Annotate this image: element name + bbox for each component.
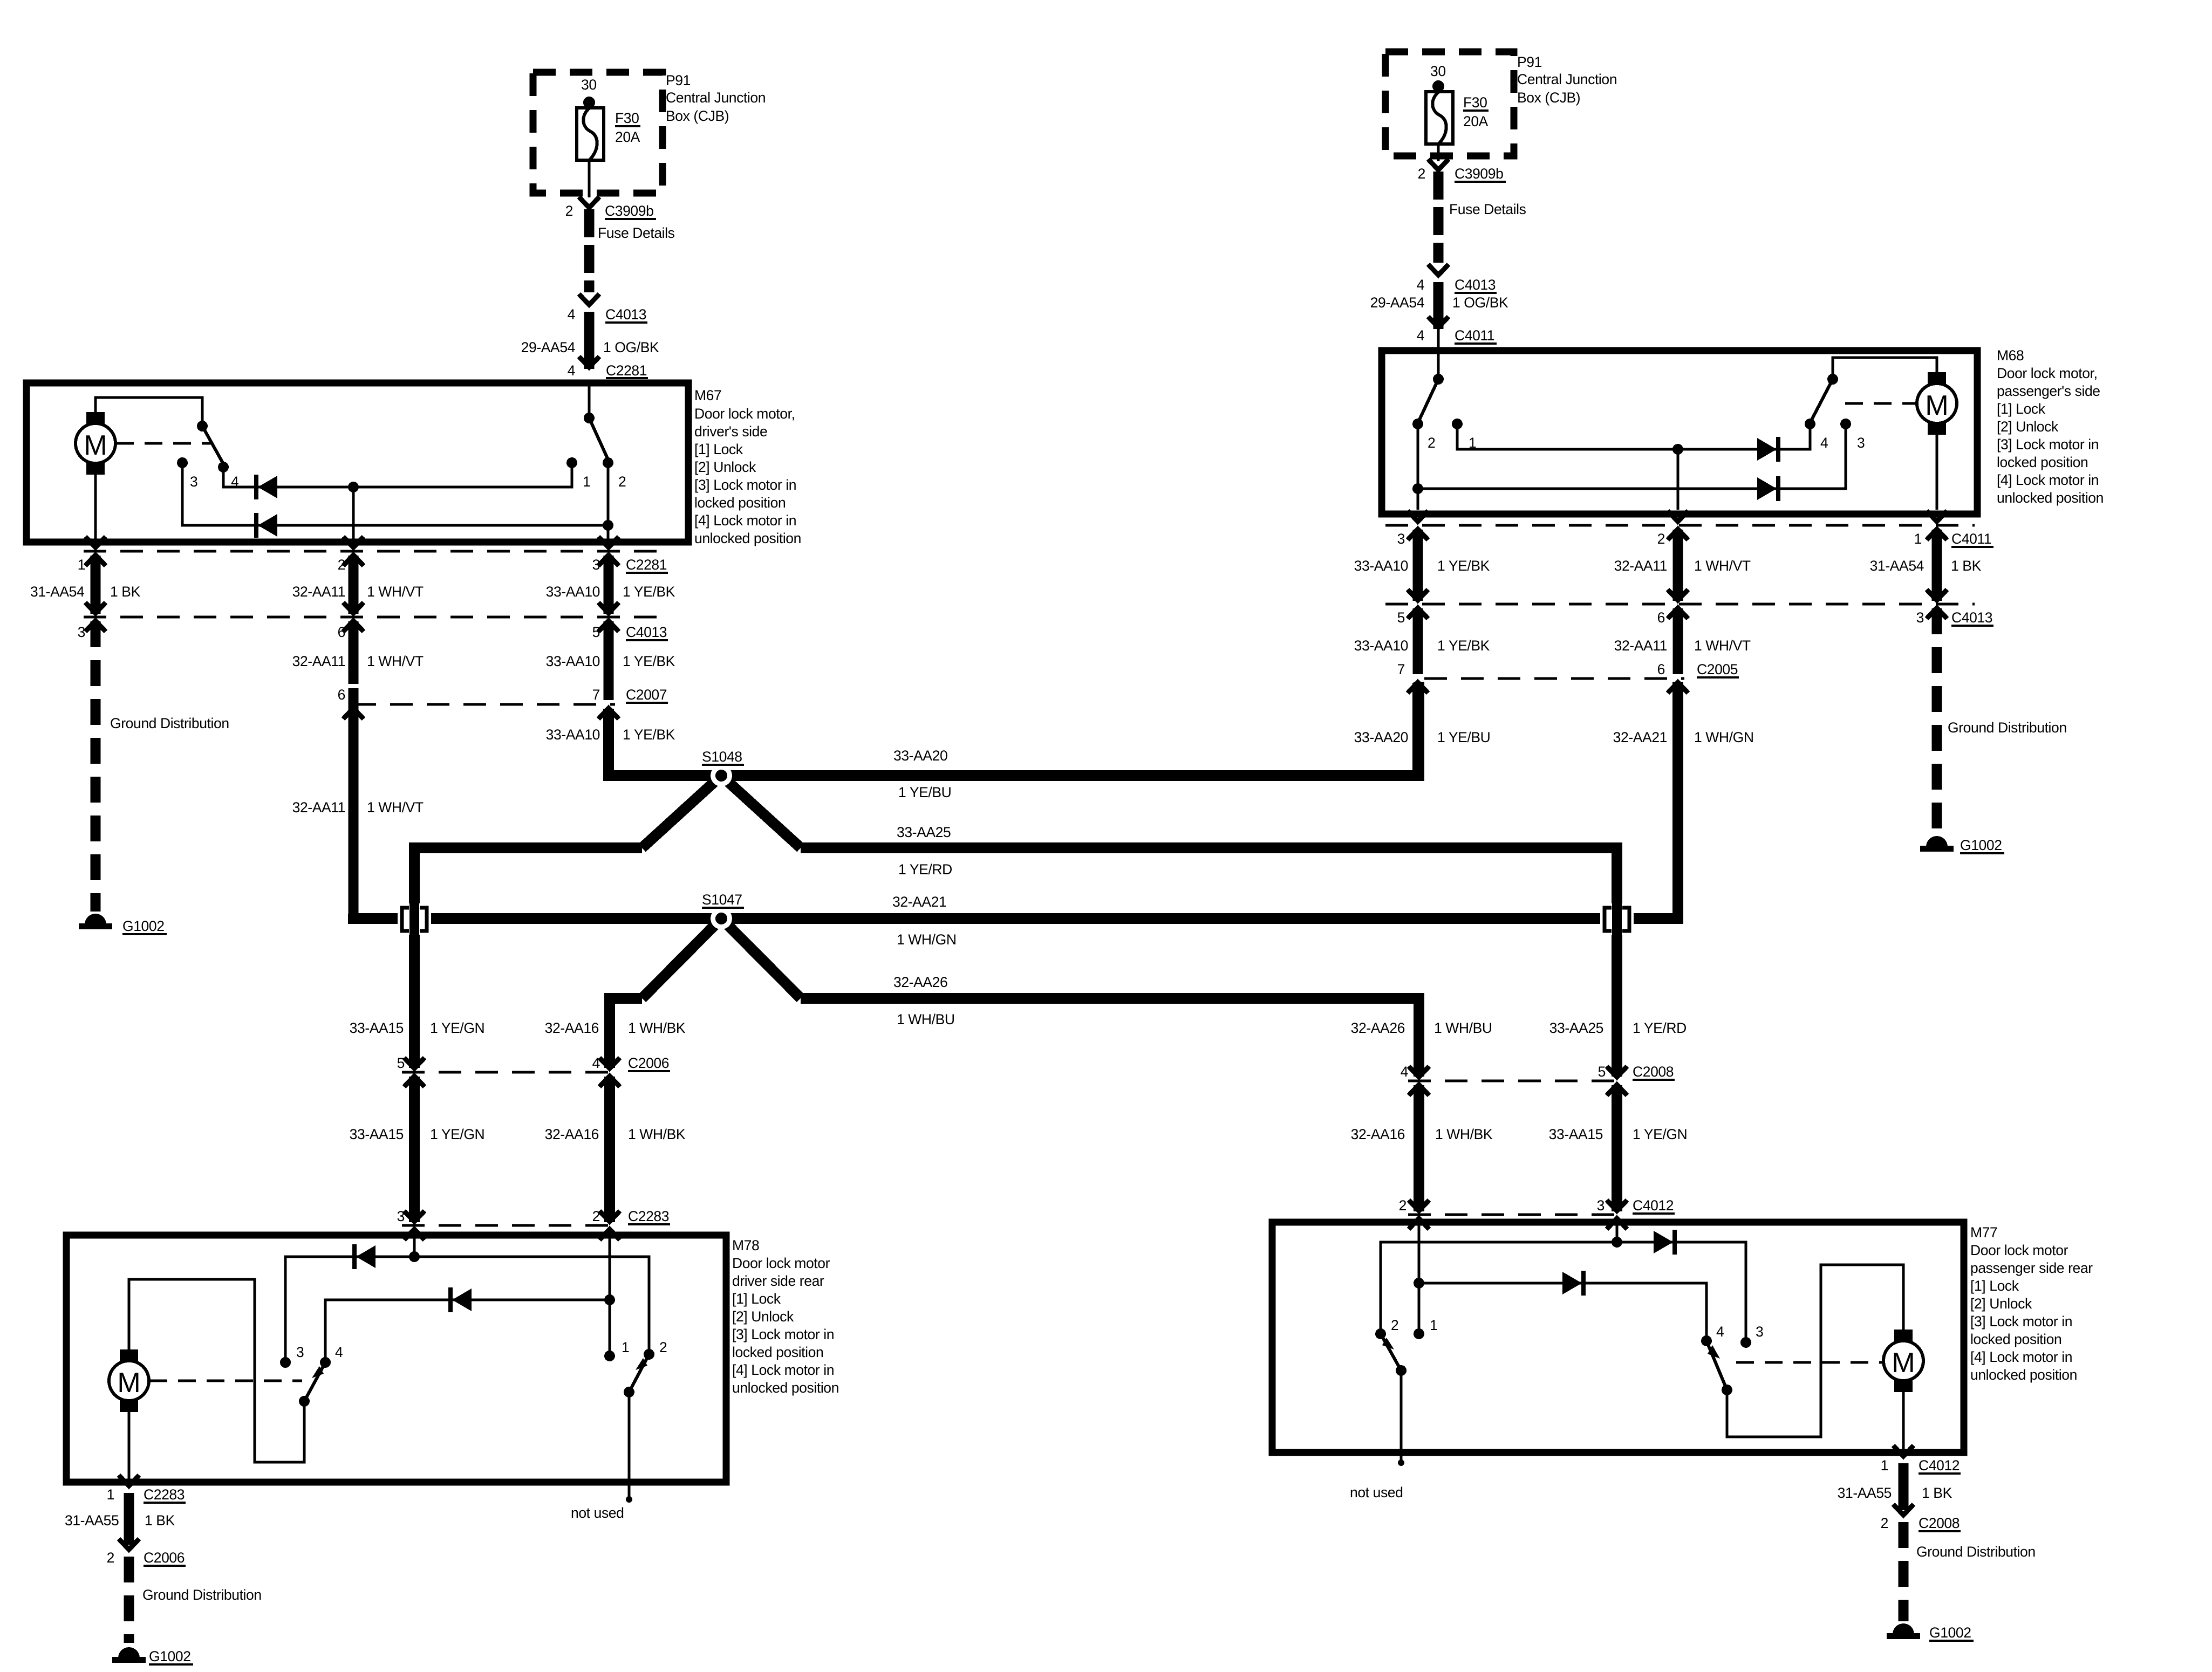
label 32-AA16 above C2006 bbox=[545, 1020, 599, 1036]
connector C4013 dashed row (left) bbox=[84, 616, 669, 619]
svg-text:passenger's side: passenger's side bbox=[1997, 383, 2100, 399]
connector C2281 dashed row bbox=[84, 550, 669, 553]
wire contact2 to pin3 (M67) bbox=[607, 463, 610, 539]
connector C2008 pin arrows bbox=[1409, 1066, 1627, 1095]
label contact 4 (M78) bbox=[335, 1344, 343, 1360]
motor M78 top terminal bbox=[120, 1349, 138, 1361]
contact 3 dot (M77) bbox=[1740, 1337, 1751, 1348]
label contact 3 (M67) bbox=[190, 474, 197, 490]
svg-text:1 YE/GN: 1 YE/GN bbox=[1633, 1126, 1687, 1142]
switch pivot dot (M67 motor switch) bbox=[197, 421, 208, 431]
svg-text:[3] Lock motor in: [3] Lock motor in bbox=[694, 477, 796, 493]
label M78 bbox=[732, 1237, 759, 1253]
label 1 YE/BK b (right) bbox=[1437, 638, 1490, 654]
svg-text:C4012: C4012 bbox=[1919, 1457, 1960, 1474]
wire unlock line 2 (M77) bbox=[1419, 1283, 1706, 1337]
label Ground Distribution (bottom left) bbox=[142, 1587, 262, 1603]
label Ground Distribution (right) bbox=[1948, 719, 2067, 736]
svg-text:32-AA11: 32-AA11 bbox=[1614, 558, 1667, 574]
wire ground distribution dashed (left G1002) bbox=[91, 621, 101, 912]
svg-text:1: 1 bbox=[622, 1339, 629, 1355]
svg-text:[3] Lock motor in: [3] Lock motor in bbox=[1970, 1313, 2072, 1330]
svg-text:M67: M67 bbox=[694, 387, 721, 403]
svg-text:30: 30 bbox=[1430, 63, 1446, 79]
svg-text:G1002: G1002 bbox=[149, 1648, 191, 1664]
svg-text:locked position: locked position bbox=[1970, 1331, 2061, 1347]
wire fuse top stub (left) bbox=[588, 102, 591, 109]
svg-text:C4013: C4013 bbox=[1455, 277, 1496, 293]
pin 30 label (left fuse) bbox=[581, 77, 597, 93]
svg-text:[4] Lock motor in: [4] Lock motor in bbox=[694, 512, 796, 529]
connector C4011 labels bbox=[1397, 531, 1993, 547]
svg-text:C2005: C2005 bbox=[1697, 661, 1738, 677]
label G1002 (bottom left) bbox=[149, 1648, 193, 1664]
wire 33-AA10 segment c to S1048 bbox=[609, 709, 721, 776]
label M67 bbox=[694, 387, 721, 403]
motor M77 top terminal bbox=[1894, 1330, 1913, 1341]
label 1 WH/BU (bus) bbox=[897, 1011, 955, 1027]
svg-text:1 YE/GN: 1 YE/GN bbox=[430, 1126, 484, 1142]
label M67 description bbox=[694, 406, 801, 546]
svg-text:4: 4 bbox=[568, 362, 575, 379]
label G1002 (right) bbox=[1960, 837, 2004, 853]
svg-text:1 BK: 1 BK bbox=[1922, 1485, 1952, 1501]
box M68 outline bbox=[1382, 351, 1977, 514]
svg-text:4: 4 bbox=[1417, 277, 1424, 293]
svg-text:5: 5 bbox=[397, 1055, 405, 1071]
svg-text:driver side rear: driver side rear bbox=[732, 1273, 824, 1289]
wire contact4 to lock line (M67) bbox=[223, 465, 572, 487]
label 32-AA11 b (right) bbox=[1614, 638, 1667, 654]
svg-text:33-AA10: 33-AA10 bbox=[546, 727, 600, 743]
svg-text:unlocked position: unlocked position bbox=[1970, 1367, 2077, 1383]
label 1 OG/BK (left) bbox=[603, 339, 659, 355]
connector C4011 dashed row bbox=[1385, 524, 1975, 527]
svg-text:4: 4 bbox=[592, 1055, 600, 1071]
connector C4012 dashed row bbox=[1408, 1214, 1627, 1216]
wire lock line 1 (M77) bbox=[1381, 1242, 1746, 1339]
wire contact1 to lock line (M68) bbox=[1457, 424, 1810, 449]
svg-text:Door lock motor,: Door lock motor, bbox=[694, 406, 795, 422]
svg-text:[4] Lock motor in: [4] Lock motor in bbox=[732, 1362, 834, 1378]
contact 4 dot (M68) bbox=[1805, 419, 1815, 429]
wire entry pin4 top (M67) bbox=[588, 384, 591, 416]
svg-text:Central Junction: Central Junction bbox=[1517, 71, 1617, 87]
svg-text:C4011: C4011 bbox=[1455, 327, 1494, 344]
svg-text:3: 3 bbox=[1756, 1324, 1763, 1340]
svg-text:1 WH/VT: 1 WH/VT bbox=[367, 653, 424, 669]
wire S1048 diagonal right bbox=[721, 776, 801, 848]
svg-text:7: 7 bbox=[592, 687, 600, 703]
switch blade (M67 motor switch) bbox=[202, 426, 223, 464]
wire pivot right not-used stub (M78) bbox=[626, 1392, 632, 1503]
wire 33-AA15 segment to C4012 bbox=[1612, 1085, 1622, 1211]
label 1 BK (left col) bbox=[110, 584, 141, 600]
wire 33-AA15 segment to C2283 bbox=[409, 1077, 420, 1222]
wire ground distribution dashed (right G1002) bbox=[1932, 608, 1942, 833]
wire 29-AA54 1 OG/BK (left) bbox=[584, 312, 595, 369]
wire pin3 entry (M77) bbox=[1616, 1225, 1619, 1242]
dashed link motor to blade (M67) bbox=[116, 442, 211, 445]
svg-text:unlocked position: unlocked position bbox=[732, 1380, 839, 1396]
svg-text:M: M bbox=[117, 1367, 140, 1399]
label 1 YE/BK c bbox=[623, 727, 675, 743]
junction dot pin2 (M77) bbox=[1414, 1278, 1424, 1289]
fuse F30 20A (left) bbox=[577, 108, 604, 160]
svg-text:32-AA21: 32-AA21 bbox=[892, 894, 946, 910]
svg-text:Door lock motor: Door lock motor bbox=[1970, 1242, 2068, 1258]
svg-text:33-AA10: 33-AA10 bbox=[1354, 558, 1408, 574]
junction dot pin3 (M68) bbox=[1412, 483, 1423, 494]
motor M67 bottom terminal bbox=[86, 463, 105, 475]
svg-text:1 YE/BK: 1 YE/BK bbox=[1437, 638, 1490, 654]
label 29-AA54 (left) bbox=[521, 339, 575, 355]
svg-text:M78: M78 bbox=[732, 1237, 759, 1253]
wire 33-AA25 1 YE/RD left run bbox=[414, 848, 642, 902]
dashed link blade to motor (M77) bbox=[1736, 1361, 1883, 1364]
label G1002 (left) bbox=[122, 918, 167, 934]
svg-text:20A: 20A bbox=[1463, 113, 1489, 129]
label 33-AA10 a bbox=[546, 584, 600, 600]
svg-text:20A: 20A bbox=[615, 129, 640, 145]
wire 32-AA16 jog from S1047 to C2006 bbox=[610, 998, 642, 1068]
wire 33-AA10 segment b (right) bbox=[1413, 608, 1423, 674]
connector C3909b (right) pin 2 bbox=[1418, 159, 1506, 182]
junction dot pin2 node (M67) bbox=[348, 482, 359, 492]
svg-text:2: 2 bbox=[1657, 531, 1665, 547]
connector C4012 pin arrows bbox=[1409, 1200, 1627, 1229]
motor M77 bottom terminal bbox=[1894, 1380, 1913, 1392]
svg-text:C4011: C4011 bbox=[1951, 531, 1991, 547]
wire pin2 entry (M77) bbox=[1418, 1225, 1421, 1330]
svg-text:2: 2 bbox=[1391, 1317, 1398, 1333]
svg-text:1 YE/RD: 1 YE/RD bbox=[898, 861, 952, 878]
svg-text:33-AA25: 33-AA25 bbox=[1549, 1020, 1603, 1036]
svg-text:Box (CJB): Box (CJB) bbox=[666, 108, 729, 124]
switch blade right (M68) bbox=[1811, 379, 1833, 421]
label 32-AA11 a (right) bbox=[1614, 558, 1667, 574]
svg-text:1: 1 bbox=[1430, 1317, 1437, 1333]
svg-text:31-AA54: 31-AA54 bbox=[30, 584, 84, 600]
label 32-AA11 c bbox=[292, 799, 345, 816]
svg-text:C4012: C4012 bbox=[1633, 1197, 1674, 1214]
diode D1 (M77) bbox=[1654, 1230, 1677, 1255]
label contact 1 (M77) bbox=[1430, 1317, 1437, 1333]
svg-text:3: 3 bbox=[1397, 531, 1405, 547]
svg-text:1 WH/GN: 1 WH/GN bbox=[1694, 729, 1754, 745]
wire lock line 1 (M78) bbox=[285, 1257, 649, 1362]
svg-text:F30: F30 bbox=[1463, 94, 1487, 111]
label contact 4 (M68) bbox=[1820, 435, 1828, 451]
svg-text:[3] Lock motor in: [3] Lock motor in bbox=[732, 1326, 834, 1342]
label 31-AA55 (left) bbox=[65, 1512, 119, 1529]
wire pivot loop to motor top (M78) bbox=[129, 1279, 304, 1462]
label not used (M77) bbox=[1350, 1484, 1403, 1500]
label 33-AA25 (bus) bbox=[897, 824, 951, 840]
label 1 WH/VT b bbox=[367, 653, 424, 669]
svg-text:G1002: G1002 bbox=[1929, 1625, 1971, 1641]
connector C2006 labels bbox=[397, 1055, 670, 1071]
svg-text:33-AA15: 33-AA15 bbox=[350, 1126, 404, 1142]
label 33-AA10 b (right) bbox=[1354, 638, 1408, 654]
svg-text:1 YE/RD: 1 YE/RD bbox=[1633, 1020, 1687, 1036]
svg-text:3: 3 bbox=[190, 474, 197, 490]
svg-text:G1002: G1002 bbox=[1960, 837, 2002, 853]
connector C2006 pin 2 below M78 bbox=[107, 1539, 186, 1566]
svg-text:32-AA26: 32-AA26 bbox=[1351, 1020, 1405, 1036]
label contact 3 (M78) bbox=[296, 1344, 304, 1360]
label 1 WH/BK below C2006 bbox=[628, 1126, 686, 1142]
connector C4013 dashed row (right) bbox=[1385, 603, 1975, 606]
label contact 4 (M67) bbox=[231, 474, 238, 490]
svg-text:Ground Distribution: Ground Distribution bbox=[1916, 1544, 2036, 1560]
label M68 description bbox=[1997, 365, 2104, 506]
svg-text:2: 2 bbox=[107, 1550, 114, 1566]
contact 4 dot (M67) bbox=[218, 462, 229, 472]
svg-text:1 YE/BK: 1 YE/BK bbox=[623, 653, 675, 669]
svg-text:3: 3 bbox=[78, 624, 85, 640]
svg-text:C2007: C2007 bbox=[626, 687, 667, 703]
svg-text:33-AA20: 33-AA20 bbox=[1354, 729, 1408, 745]
wire 32-AA26 1 WH/BU bus bbox=[801, 998, 1419, 1077]
label F30 (right) bbox=[1463, 94, 1489, 111]
ground symbol G1002 (left) bbox=[79, 914, 112, 929]
motor M67 top terminal bbox=[86, 412, 105, 424]
svg-text:1 WH/BU: 1 WH/BU bbox=[897, 1011, 955, 1027]
connector C2005 dashed row bbox=[1424, 677, 1684, 680]
wire pin1 motor drop (M68) bbox=[1936, 434, 1938, 510]
wire contact3 to unlock line (M68) bbox=[1418, 424, 1846, 489]
contact 4 dot (M77) bbox=[1701, 1335, 1712, 1346]
svg-text:1 YE/BK: 1 YE/BK bbox=[623, 727, 675, 743]
switch pivot right dot (M78) bbox=[624, 1387, 634, 1397]
svg-text:1 YE/BK: 1 YE/BK bbox=[1437, 558, 1490, 574]
label 32-AA16 below C2006 bbox=[545, 1126, 599, 1142]
svg-text:4: 4 bbox=[1401, 1064, 1408, 1080]
svg-text:2: 2 bbox=[1428, 435, 1435, 451]
label 1 YE/BU (bus) bbox=[898, 784, 951, 800]
svg-text:3: 3 bbox=[296, 1344, 304, 1360]
label 1 WH/BU above C2008 bbox=[1434, 1020, 1492, 1036]
wire 32-AA21 right corner up to C2005 bbox=[1631, 682, 1678, 919]
connector C2283 pin arrows bbox=[404, 1211, 620, 1240]
switch blade left (M68) bbox=[1419, 379, 1438, 421]
wire 33-AA20 drop from C2005 (right) bbox=[1412, 683, 1423, 776]
switch pivot right dot (M77) bbox=[1722, 1385, 1732, 1395]
connector C2006 dashed row bbox=[402, 1071, 620, 1074]
svg-text:[2] Unlock: [2] Unlock bbox=[732, 1308, 794, 1325]
svg-text:4: 4 bbox=[335, 1344, 343, 1360]
wire fuse details dashed (right) bbox=[1433, 172, 1444, 263]
wire 31-AA54 segment (right) bbox=[1932, 530, 1942, 601]
wire pin3 entry (M78) bbox=[413, 1238, 416, 1257]
svg-text:1 BK: 1 BK bbox=[145, 1512, 175, 1529]
svg-text:C3909b: C3909b bbox=[605, 203, 653, 219]
wire 32-AA11 segment b (right) bbox=[1673, 608, 1683, 674]
svg-text:Fuse Details: Fuse Details bbox=[598, 225, 675, 241]
wire 31-AA55 1 BK (left) bbox=[124, 1493, 134, 1545]
junction dot pin3 node (M67) bbox=[603, 520, 613, 531]
label 31-AA54 (right) bbox=[1870, 558, 1924, 574]
svg-text:[1] Lock: [1] Lock bbox=[694, 441, 743, 457]
svg-text:C4013: C4013 bbox=[605, 306, 646, 323]
svg-text:33-AA20: 33-AA20 bbox=[893, 748, 947, 764]
svg-text:3: 3 bbox=[1597, 1197, 1605, 1214]
svg-text:1 WH/VT: 1 WH/VT bbox=[367, 584, 424, 600]
svg-text:M: M bbox=[84, 430, 107, 461]
svg-text:1 BK: 1 BK bbox=[110, 584, 141, 600]
label 1 BK (bottom left) bbox=[145, 1512, 175, 1529]
svg-text:3: 3 bbox=[397, 1208, 405, 1224]
svg-text:1 WH/BU: 1 WH/BU bbox=[1434, 1020, 1492, 1036]
connector C4011 pin 4 bbox=[1417, 317, 1497, 344]
svg-text:[3] Lock motor in: [3] Lock motor in bbox=[1997, 436, 2099, 453]
wire ground distribution dashed (bottom left) bbox=[124, 1557, 134, 1643]
ground symbol G1002 (bottom right) bbox=[1887, 1623, 1920, 1639]
svg-text:unlocked position: unlocked position bbox=[1997, 490, 2104, 506]
contact 4 dot (M78) bbox=[320, 1357, 331, 1368]
label 32-AA11 a bbox=[292, 584, 345, 600]
wire motor bottom to pin1 (M78) bbox=[128, 1411, 131, 1480]
svg-text:M77: M77 bbox=[1970, 1224, 1997, 1241]
junction dot pin3 (M77) bbox=[1612, 1237, 1622, 1248]
label contact 1 (M68) bbox=[1469, 435, 1476, 451]
contact 1 dot (M68) bbox=[1452, 419, 1463, 429]
label 1 WH/GN (bus) bbox=[897, 931, 957, 948]
label 1 WH/BK above C2006 bbox=[628, 1020, 686, 1036]
label Central Junction (left) bbox=[666, 90, 766, 106]
wire pivot loop to motor top (M77) bbox=[1727, 1265, 1903, 1437]
wire 32-AA11 segment a bbox=[349, 556, 359, 614]
label 33-AA10 a (right) bbox=[1354, 558, 1408, 574]
wire pin2 drop (M68) bbox=[1677, 449, 1680, 510]
svg-text:32-AA16: 32-AA16 bbox=[545, 1020, 599, 1036]
pin 30 label (right fuse) bbox=[1430, 63, 1446, 79]
wire 32-AA21 1 WH/GN bus bbox=[429, 913, 1602, 924]
svg-text:1: 1 bbox=[583, 474, 590, 490]
wire 32-AA11 corner into S1047 line bbox=[353, 914, 399, 919]
svg-text:Fuse Details: Fuse Details bbox=[1449, 201, 1526, 217]
contact 1 dot (M67) bbox=[566, 457, 577, 468]
label P91 (left) bbox=[666, 72, 691, 88]
svg-text:1 YE/BU: 1 YE/BU bbox=[1437, 729, 1490, 745]
box M77 outline bbox=[1272, 1222, 1964, 1452]
connector C2008 dashed row bbox=[1408, 1080, 1627, 1082]
label 1 WH/VT c bbox=[367, 799, 424, 816]
junction dot pin2 node (M68) bbox=[1672, 444, 1683, 455]
diode D2 (M78) bbox=[448, 1287, 472, 1312]
label 31-AA54 bbox=[30, 584, 84, 600]
svg-text:C2008: C2008 bbox=[1919, 1515, 1960, 1531]
svg-text:32-AA26: 32-AA26 bbox=[893, 974, 947, 990]
svg-text:2: 2 bbox=[565, 203, 573, 219]
diode D2 (M77) bbox=[1562, 1271, 1586, 1296]
svg-text:33-AA15: 33-AA15 bbox=[350, 1020, 404, 1036]
label M68 bbox=[1997, 347, 2024, 364]
svg-text:S1047: S1047 bbox=[702, 892, 742, 908]
switch pivot left dot (M77) bbox=[1396, 1365, 1407, 1376]
fuse F30 20A (right) bbox=[1426, 92, 1453, 144]
label 1 BK (bottom right) bbox=[1922, 1485, 1952, 1501]
svg-text:3: 3 bbox=[1857, 435, 1865, 451]
connector C4013 pin arrows (right) bbox=[1408, 590, 1947, 619]
svg-text:C2008: C2008 bbox=[1633, 1064, 1674, 1080]
svg-text:1 WH/GN: 1 WH/GN bbox=[897, 931, 957, 948]
wire 31-AA55 1 BK (right) bbox=[1899, 1463, 1909, 1510]
wire entry pin4 top (M68) bbox=[1437, 329, 1440, 378]
label 1 YE/GN below C2006 bbox=[430, 1126, 484, 1142]
label M78 description bbox=[732, 1255, 839, 1396]
label S1048 bbox=[702, 749, 744, 765]
svg-text:1 YE/BU: 1 YE/BU bbox=[898, 784, 951, 800]
svg-text:2: 2 bbox=[659, 1339, 667, 1355]
wire 33-AA25 through crossover left (vertical) bbox=[409, 895, 420, 1068]
label 33-AA10 c bbox=[546, 727, 600, 743]
motor M (M77) circle bbox=[1883, 1341, 1923, 1381]
label 33-AA15 below C2006 bbox=[350, 1126, 404, 1142]
wire 33-AA10 segment a bbox=[604, 556, 614, 614]
svg-text:M: M bbox=[1925, 390, 1948, 421]
label not used (M78) bbox=[571, 1505, 624, 1521]
svg-text:P91: P91 bbox=[666, 72, 691, 88]
svg-text:4: 4 bbox=[568, 306, 575, 323]
svg-text:1 WH/BK: 1 WH/BK bbox=[628, 1126, 686, 1142]
wire fuse bottom to box edge (left) bbox=[588, 160, 591, 197]
svg-text:Door lock motor,: Door lock motor, bbox=[1997, 365, 2098, 381]
switch blade right (M77) with arrow bbox=[1706, 1341, 1727, 1390]
svg-text:[4] Lock motor in: [4] Lock motor in bbox=[1970, 1349, 2072, 1365]
svg-text:M68: M68 bbox=[1997, 347, 2024, 364]
connector C2281 labels bbox=[78, 557, 668, 573]
svg-text:Box (CJB): Box (CJB) bbox=[1517, 90, 1580, 106]
svg-text:7: 7 bbox=[1397, 661, 1405, 677]
label Box (CJB) (left) bbox=[666, 108, 729, 124]
svg-text:[2] Unlock: [2] Unlock bbox=[1970, 1296, 2032, 1312]
motor M68 top terminal bbox=[1928, 372, 1946, 384]
splice node S1048 bbox=[711, 765, 732, 786]
connector C2007 labels bbox=[338, 687, 668, 703]
crossover connector symbol (left) bbox=[398, 901, 431, 937]
connector C2281 pin arrows bbox=[85, 537, 619, 566]
junction dot pin3 (M78) bbox=[409, 1251, 420, 1262]
label 1 OG/BK (right) bbox=[1452, 294, 1508, 311]
label Ground Distribution (left) bbox=[110, 715, 229, 731]
wire motor top loop (M68) bbox=[1833, 358, 1937, 378]
svg-text:locked position: locked position bbox=[732, 1344, 823, 1360]
label Box (CJB) (right) bbox=[1517, 90, 1580, 106]
svg-text:1: 1 bbox=[78, 557, 85, 573]
svg-text:32-AA11: 32-AA11 bbox=[292, 584, 345, 600]
connector C4013 row labels (right) bbox=[1397, 609, 1993, 626]
label contact 4 (M77) bbox=[1716, 1324, 1724, 1340]
svg-text:locked position: locked position bbox=[694, 495, 786, 511]
label 1 YE/RD above C2008 bbox=[1633, 1020, 1687, 1036]
switch blade right (M67) bbox=[589, 418, 608, 460]
contact 1 dot (M77) bbox=[1414, 1328, 1424, 1339]
contact 3 dot (M78) bbox=[280, 1357, 291, 1368]
svg-text:1 OG/BK: 1 OG/BK bbox=[603, 339, 659, 355]
wire motor bottom to pin1 (M77) bbox=[1902, 1392, 1905, 1451]
diode D2 (M68) bbox=[1757, 476, 1780, 501]
wire 33-AA10 segment b bbox=[604, 621, 614, 700]
label 1 WH/VT a (right) bbox=[1694, 558, 1751, 574]
label contact 3 (M77) bbox=[1756, 1324, 1763, 1340]
svg-text:1 OG/BK: 1 OG/BK bbox=[1452, 294, 1508, 311]
connector C2008 pin 2 below M77 bbox=[1881, 1504, 1961, 1531]
connector C4013 (right) pin 4 bbox=[1417, 264, 1497, 293]
wire 33-AA25 through crossover right (vertical) bbox=[1612, 893, 1622, 1077]
svg-text:1 BK: 1 BK bbox=[1951, 558, 1982, 574]
